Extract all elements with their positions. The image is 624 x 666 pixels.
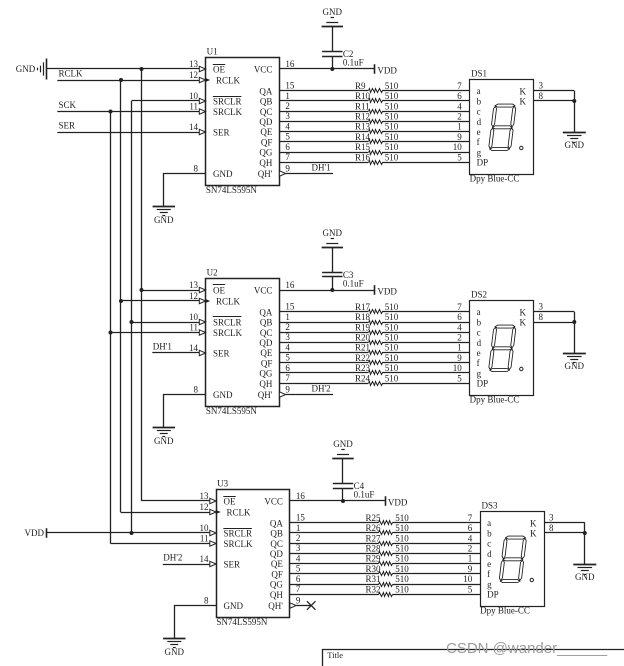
svg-text:7: 7 — [468, 513, 473, 523]
svg-text:d: d — [477, 117, 482, 127]
svg-text:16: 16 — [285, 59, 295, 69]
svg-text:3: 3 — [539, 81, 544, 91]
ground (top) for C2 — [322, 26, 343, 28]
resistor R27 510 — [379, 542, 393, 546]
svg-text:b: b — [487, 528, 492, 538]
pin 14 SER of U3 — [210, 561, 216, 566]
wire tap U2 SRCLK — [111, 332, 200, 334]
svg-text:R16: R16 — [355, 152, 371, 162]
resistor R13 510 — [369, 130, 383, 134]
svg-text:QH: QH — [270, 590, 283, 600]
svg-text:f: f — [487, 569, 490, 579]
svg-text:SN74LS595N: SN74LS595N — [206, 406, 258, 416]
svg-text:3: 3 — [296, 543, 301, 553]
svg-text:510: 510 — [385, 91, 399, 101]
wire U3 SRCLK feed — [111, 543, 210, 545]
ground symbol below chip — [153, 206, 175, 208]
svg-text:GND: GND — [16, 64, 36, 74]
svg-text:510: 510 — [395, 564, 409, 574]
svg-text:GND: GND — [323, 7, 343, 17]
svg-text:15: 15 — [285, 81, 295, 91]
op-amp substitute: shift register U3 SN74LS595N — [217, 490, 290, 618]
capacitor C3 0.1uF — [322, 272, 342, 274]
ground for DS3 — [573, 564, 596, 566]
svg-text:GND: GND — [224, 601, 244, 611]
svg-text:QB: QB — [270, 529, 283, 539]
wire QC to R11 — [279, 111, 368, 113]
svg-text:0.1uF: 0.1uF — [343, 58, 364, 68]
svg-text:7: 7 — [457, 81, 462, 91]
wire QF to R30 — [290, 573, 379, 575]
svg-text:16: 16 — [285, 280, 295, 290]
svg-text:510: 510 — [385, 302, 399, 312]
svg-text:R25: R25 — [366, 513, 382, 523]
svg-text:510: 510 — [385, 322, 399, 332]
svg-text:GND: GND — [565, 361, 585, 371]
wire VCC to VDD — [279, 290, 375, 292]
ground (left rotated earth at GND net) — [46, 59, 48, 80]
svg-text:4: 4 — [296, 553, 301, 563]
display DS2 Dpy Blue-CC — [470, 301, 534, 396]
svg-text:RCLK: RCLK — [227, 508, 252, 518]
svg-text:DH'1: DH'1 — [153, 342, 172, 352]
svg-text:VCC: VCC — [264, 497, 283, 507]
wire QE to R13 — [279, 131, 368, 133]
wire QE to R21 — [279, 352, 368, 354]
svg-text:R18: R18 — [355, 312, 371, 322]
wire QA to R25 — [290, 522, 379, 524]
title block border — [323, 650, 624, 666]
svg-text:RCLK: RCLK — [59, 69, 84, 79]
capacitor C2 0.1uF — [322, 51, 342, 53]
svg-text:R23: R23 — [355, 363, 371, 373]
wire R19 to display pin 4 — [382, 332, 470, 334]
wire QC to R19 — [279, 332, 368, 334]
wire R28 to display pin 2 — [393, 553, 481, 555]
wire U1 SRCLR stub — [132, 100, 200, 102]
wire pin8 to ground — [175, 606, 217, 639]
wire VCC to VDD — [290, 500, 386, 502]
resistor R18 510 — [369, 321, 383, 325]
wire QE to R29 — [290, 563, 379, 565]
svg-text:10: 10 — [189, 91, 199, 101]
svg-text:SCK: SCK — [59, 100, 77, 110]
svg-text:6: 6 — [457, 91, 462, 101]
svg-text:6: 6 — [468, 523, 473, 533]
svg-text:9: 9 — [296, 595, 301, 605]
ground for DS1 — [563, 132, 586, 134]
svg-text:R10: R10 — [355, 91, 371, 101]
decimal point — [530, 578, 533, 581]
svg-text:QG: QG — [259, 369, 272, 379]
wire QB to R26 — [290, 532, 379, 534]
svg-text:QF: QF — [261, 137, 273, 147]
svg-text:SRCLK: SRCLK — [213, 328, 243, 338]
svg-text:SER: SER — [224, 560, 241, 570]
svg-text:GND: GND — [154, 215, 174, 225]
wire QH to R16 — [279, 162, 368, 164]
svg-text:OE: OE — [213, 65, 225, 75]
svg-text:7: 7 — [285, 152, 290, 162]
wire QD to R28 — [290, 553, 379, 555]
wire R9 to display pin 7 — [382, 90, 470, 92]
svg-text:QH': QH' — [258, 169, 273, 179]
wire QG to R23 — [279, 372, 368, 374]
pin 10 SRCLR of U2 — [199, 319, 205, 324]
wire pin8 to ground — [164, 174, 206, 207]
svg-text:2: 2 — [457, 112, 462, 122]
pin 10 SRCLR of U3 — [210, 530, 216, 535]
ground (top) for C4 — [332, 458, 353, 460]
svg-text:R32: R32 — [366, 584, 381, 594]
svg-text:f: f — [477, 137, 480, 147]
svg-text:510: 510 — [395, 554, 409, 564]
junction cap/VCC — [330, 288, 334, 292]
power VDD — [374, 64, 376, 74]
svg-text:1: 1 — [468, 554, 473, 564]
svg-text:SRCLK: SRCLK — [213, 107, 243, 117]
svg-text:8: 8 — [194, 384, 199, 394]
svg-text:510: 510 — [385, 363, 399, 373]
svg-text:QH: QH — [259, 158, 272, 168]
svg-text:QB: QB — [260, 318, 273, 328]
svg-text:14: 14 — [189, 343, 199, 353]
svg-text:2: 2 — [296, 533, 301, 543]
wire SCK — [57, 111, 199, 113]
wire R10 to display pin 6 — [382, 100, 470, 102]
svg-text:QE: QE — [260, 348, 272, 358]
svg-text:3: 3 — [285, 111, 290, 121]
wire RCLK bus vertical — [120, 80, 122, 512]
svg-text:Dpy Blue-CC: Dpy Blue-CC — [470, 395, 520, 405]
svg-text:R9: R9 — [355, 81, 366, 91]
wire C4 to VCC net — [342, 488, 344, 501]
wire R21 to display pin 1 — [382, 352, 470, 354]
svg-text:R19: R19 — [355, 322, 371, 332]
resistor R23 510 — [369, 371, 383, 375]
wire GND net to U1 OE — [47, 68, 199, 70]
resistor R9 510 — [369, 89, 383, 93]
resistor R26 510 — [379, 531, 393, 535]
pin 14 SER of U1 — [199, 129, 205, 134]
pin 11 SRCLK of U2 — [199, 330, 205, 335]
svg-text:4: 4 — [457, 101, 462, 111]
junction K net — [583, 531, 587, 535]
svg-text:6: 6 — [296, 574, 301, 584]
no-connect X — [307, 601, 316, 610]
svg-text:QD: QD — [259, 338, 272, 348]
svg-text:DH'2: DH'2 — [312, 384, 331, 394]
resistor R25 510 — [379, 521, 393, 525]
svg-text:12: 12 — [189, 70, 198, 80]
svg-text:QB: QB — [260, 97, 273, 107]
svg-text:R27: R27 — [366, 533, 382, 543]
svg-text:5: 5 — [285, 132, 290, 142]
pin 14 SER of U2 — [199, 350, 205, 355]
wire QH to R24 — [279, 383, 368, 385]
junction U2 RCLK tap — [119, 299, 123, 303]
svg-text:QA: QA — [270, 518, 283, 528]
wire R24 to display pin 5 — [382, 383, 470, 385]
power VDD — [385, 496, 387, 506]
resistor R28 510 — [379, 552, 393, 556]
svg-text:RCLK: RCLK — [216, 76, 241, 86]
ground for DS2 — [563, 353, 586, 355]
svg-text:510: 510 — [385, 343, 399, 353]
svg-text:13: 13 — [189, 280, 199, 290]
seven segment glyph — [488, 325, 516, 372]
wire R31 to display pin 10 — [393, 584, 481, 586]
node DH'2 wire — [286, 394, 333, 396]
svg-text:R13: R13 — [355, 122, 371, 132]
wire QH' no-connect — [296, 605, 311, 607]
svg-text:QG: QG — [259, 148, 272, 158]
resistor R21 510 — [369, 351, 383, 355]
wire R16 to display pin 5 — [382, 162, 470, 164]
svg-text:0.1uF: 0.1uF — [343, 279, 364, 289]
svg-text:GND: GND — [213, 169, 233, 179]
svg-text:Dpy Blue-CC: Dpy Blue-CC — [480, 606, 530, 616]
svg-text:3: 3 — [549, 513, 554, 523]
svg-text:4: 4 — [285, 342, 290, 352]
svg-text:DP: DP — [477, 379, 489, 389]
wire R15 to display pin 10 — [382, 152, 470, 154]
wire QB to R10 — [279, 100, 368, 102]
svg-text:R31: R31 — [366, 574, 381, 584]
wire R29 to display pin 1 — [393, 563, 481, 565]
svg-text:3: 3 — [285, 332, 290, 342]
svg-text:11: 11 — [189, 101, 198, 111]
svg-text:VCC: VCC — [254, 65, 273, 75]
svg-text:10: 10 — [463, 574, 473, 584]
pin 12 RCLK of U3 — [210, 509, 216, 514]
svg-text:510: 510 — [385, 142, 399, 152]
display DS3 Dpy Blue-CC — [481, 512, 545, 607]
svg-text:4: 4 — [468, 533, 473, 543]
svg-text:SRCLK: SRCLK — [224, 539, 254, 549]
svg-text:4: 4 — [285, 121, 290, 131]
wire QB to R18 — [279, 322, 368, 324]
svg-text:a: a — [487, 518, 491, 528]
ground symbol below chip — [163, 638, 185, 640]
svg-text:SRCLR: SRCLR — [224, 529, 253, 539]
wire tap U2 OE — [142, 290, 200, 292]
svg-text:U2: U2 — [207, 268, 218, 278]
wire R32 to display pin 5 — [393, 594, 481, 596]
wire tap U2 SRCLR — [132, 322, 200, 324]
svg-text:b: b — [477, 317, 482, 327]
wire R12 to display pin 2 — [382, 121, 470, 123]
svg-text:5: 5 — [296, 564, 301, 574]
svg-text:R11: R11 — [355, 101, 370, 111]
svg-text:SER: SER — [213, 128, 230, 138]
resistor R31 510 — [379, 583, 393, 587]
svg-text:QC: QC — [270, 539, 283, 549]
svg-text:2: 2 — [285, 322, 290, 332]
svg-text:QH': QH' — [268, 601, 283, 611]
junction K net — [572, 320, 576, 324]
svg-text:f: f — [477, 358, 480, 368]
wire U3 RCLK feed — [121, 512, 210, 514]
svg-text:10: 10 — [453, 363, 463, 373]
resistor R30 510 — [379, 572, 393, 576]
svg-text:DH'1: DH'1 — [312, 163, 331, 173]
resistor R29 510 — [379, 562, 393, 566]
svg-text:8: 8 — [539, 91, 544, 101]
svg-text:14: 14 — [189, 122, 199, 132]
svg-text:510: 510 — [385, 122, 399, 132]
svg-text:13: 13 — [189, 59, 199, 69]
junction U2 SRCLR tap — [130, 320, 134, 324]
wire R18 to display pin 6 — [382, 322, 470, 324]
svg-text:GND: GND — [575, 572, 595, 582]
svg-text:7: 7 — [285, 373, 290, 383]
svg-text:QG: QG — [270, 580, 283, 590]
svg-text:R29: R29 — [366, 554, 382, 564]
wire OE bus vertical — [141, 69, 143, 501]
wire QH to R32 — [290, 594, 379, 596]
wire SER — [57, 132, 199, 134]
svg-text:K: K — [530, 529, 537, 539]
wire QG to R31 — [290, 584, 379, 586]
svg-text:QC: QC — [260, 107, 273, 117]
svg-text:QE: QE — [271, 559, 283, 569]
resistor R19 510 — [369, 331, 383, 335]
svg-text:R12: R12 — [355, 112, 370, 122]
svg-text:VDD: VDD — [377, 66, 397, 76]
svg-text:QD: QD — [259, 117, 272, 127]
svg-text:QH': QH' — [258, 390, 273, 400]
wire R27 to display pin 4 — [393, 543, 481, 545]
wire R30 to display pin 9 — [393, 573, 481, 575]
svg-text:510: 510 — [395, 513, 409, 523]
wire QD to R12 — [279, 121, 368, 123]
svg-text:12: 12 — [200, 502, 209, 512]
svg-text:OE: OE — [224, 497, 236, 507]
svg-text:1: 1 — [285, 91, 290, 101]
svg-text:DS2: DS2 — [471, 290, 487, 300]
resistor R10 510 — [369, 99, 383, 103]
svg-text:2: 2 — [457, 333, 462, 343]
svg-text:2: 2 — [285, 101, 290, 111]
svg-text:DS3: DS3 — [482, 501, 499, 511]
svg-text:R17: R17 — [355, 302, 371, 312]
svg-text:c: c — [477, 328, 481, 338]
wire QF to R14 — [279, 141, 368, 143]
junction U2 OE tap — [140, 288, 144, 292]
pin 12 RCLK of U1 — [199, 77, 205, 82]
svg-text:VDD: VDD — [25, 528, 45, 538]
svg-text:g: g — [487, 579, 492, 589]
svg-text:510: 510 — [385, 112, 399, 122]
wire R14 to display pin 9 — [382, 141, 470, 143]
svg-text:e: e — [477, 348, 481, 358]
svg-text:4: 4 — [457, 322, 462, 332]
svg-text:3: 3 — [539, 302, 544, 312]
svg-text:1: 1 — [296, 523, 301, 533]
svg-text:Title: Title — [327, 650, 343, 660]
pin 13 OE of U1 — [199, 66, 205, 71]
resistor R17 510 — [369, 310, 383, 314]
svg-text:15: 15 — [296, 513, 306, 523]
svg-text:RCLK: RCLK — [216, 297, 241, 307]
svg-text:6: 6 — [285, 363, 290, 373]
svg-text:GND: GND — [333, 439, 353, 449]
wire tap U2 RCLK — [121, 300, 199, 302]
junction OE bus — [140, 67, 144, 71]
ground (top) for C3 — [322, 247, 343, 249]
junction RCLK bus — [119, 78, 123, 82]
seven segment glyph — [488, 104, 516, 151]
svg-text:10: 10 — [200, 523, 210, 533]
pin 10 SRCLR of U1 — [199, 98, 205, 103]
svg-text:1: 1 — [285, 312, 290, 322]
svg-text:U3: U3 — [217, 479, 228, 489]
svg-text:510: 510 — [395, 574, 409, 584]
svg-text:11: 11 — [200, 533, 209, 543]
wire K pins to ground — [534, 311, 575, 313]
svg-text:b: b — [477, 96, 482, 106]
svg-text:Dpy Blue-CC: Dpy Blue-CC — [470, 174, 520, 184]
svg-text:DH'2: DH'2 — [163, 553, 182, 563]
svg-text:K: K — [520, 86, 527, 96]
svg-text:DP: DP — [487, 590, 499, 600]
svg-text:R28: R28 — [366, 544, 382, 554]
wire R13 to display pin 1 — [382, 131, 470, 133]
resistor R32 510 — [379, 593, 393, 597]
wire R26 to display pin 6 — [393, 532, 481, 534]
junction SRCLR bus to VDD wire — [130, 531, 134, 535]
svg-text:9: 9 — [457, 353, 462, 363]
svg-text:5: 5 — [468, 584, 473, 594]
svg-text:R20: R20 — [355, 333, 371, 343]
wire ground to C4 — [342, 459, 344, 484]
svg-text:15: 15 — [285, 302, 295, 312]
wire RCLK — [57, 80, 199, 82]
seven segment glyph — [499, 536, 527, 583]
svg-text:GND: GND — [213, 390, 233, 400]
wire VDD to U3 SRCLR — [46, 532, 210, 534]
resistor R12 510 — [369, 120, 383, 124]
svg-text:d: d — [477, 338, 482, 348]
wire C2 to VCC net — [332, 56, 334, 69]
decimal point — [520, 367, 523, 370]
wire QD to R20 — [279, 342, 368, 344]
wire R25 to display pin 7 — [393, 522, 481, 524]
svg-text:g: g — [477, 147, 482, 157]
svg-text:9: 9 — [457, 132, 462, 142]
svg-text:SN74LS595N: SN74LS595N — [206, 185, 258, 195]
resistor R24 510 — [369, 382, 383, 386]
resistor R22 510 — [369, 361, 383, 365]
svg-text:510: 510 — [395, 533, 409, 543]
svg-text:510: 510 — [385, 373, 399, 383]
svg-text:10: 10 — [189, 312, 199, 322]
svg-text:14: 14 — [200, 554, 210, 564]
svg-text:11: 11 — [189, 322, 198, 332]
svg-text:6: 6 — [457, 312, 462, 322]
svg-text:510: 510 — [385, 101, 399, 111]
svg-text:g: g — [477, 368, 482, 378]
wire QG to R15 — [279, 152, 368, 154]
svg-text:SER: SER — [213, 349, 230, 359]
wire QC to R27 — [290, 543, 379, 545]
wire QA to R9 — [279, 90, 368, 92]
svg-text:QD: QD — [270, 549, 283, 559]
svg-text:R14: R14 — [355, 132, 371, 142]
svg-text:10: 10 — [453, 142, 463, 152]
svg-text:16: 16 — [296, 491, 306, 501]
